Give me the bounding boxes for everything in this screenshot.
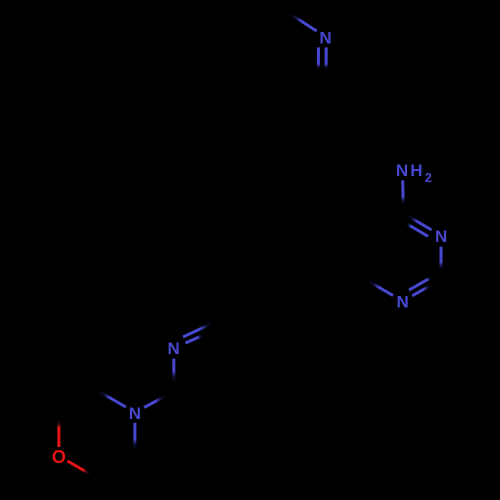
svg-text:N: N: [129, 404, 141, 423]
svg-text:N: N: [319, 28, 331, 47]
svg-text:2: 2: [425, 171, 432, 185]
bond N3-C2: [439, 247, 442, 280]
bond C4=N3 inner: [405, 223, 428, 236]
bond O-C ring down-right: [68, 461, 97, 478]
bond Nmor-C2' pyridine: [144, 392, 174, 408]
svg-text:H: H: [410, 161, 422, 180]
bond Nmor-C ring down: [133, 423, 136, 456]
bond Npy-C2': [172, 359, 175, 392]
svg-text:O: O: [52, 447, 66, 467]
svg-text:N: N: [168, 339, 180, 358]
svg-text:N: N: [435, 227, 447, 246]
svg-text:N: N: [396, 293, 408, 312]
bond C6-N1: [365, 279, 393, 296]
bond N(top)-CH3 half: [289, 13, 317, 31]
bond Npy=C6' lower: [186, 334, 207, 343]
bond C4=N3 main: [403, 213, 431, 230]
bonds group: [59, 13, 441, 478]
bond N(top)=C inner: [317, 47, 320, 76]
bond Nmor-C ring up-left: [97, 390, 126, 407]
svg-text:N: N: [396, 161, 408, 180]
bond N(top)=C main: [325, 47, 328, 80]
bond O-C ring up: [57, 412, 60, 447]
bond Npy=C6' upper: [183, 322, 216, 338]
bond C2=N1 main: [412, 280, 441, 296]
bond NH2-C4: [401, 180, 405, 213]
bond C2=N1 inner: [409, 277, 432, 290]
